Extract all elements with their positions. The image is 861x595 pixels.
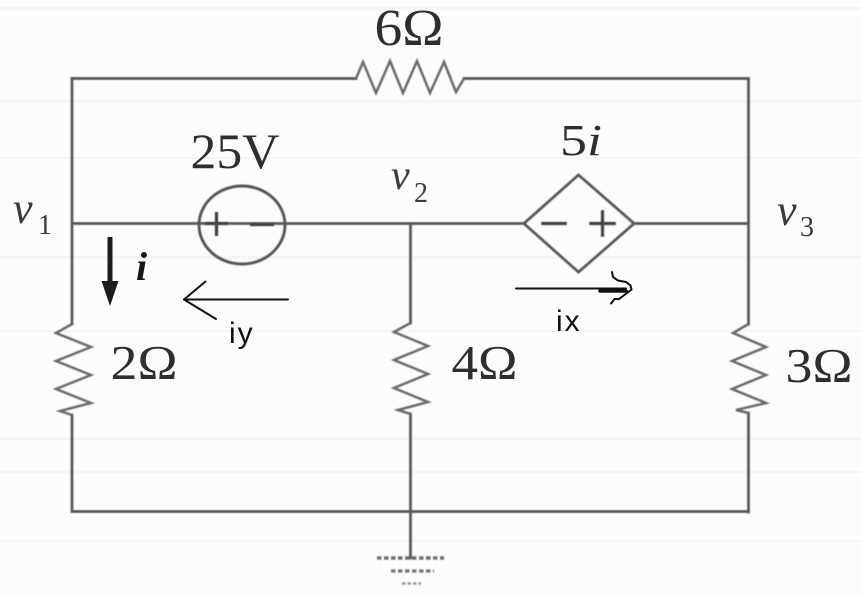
svg-text:v: v — [391, 153, 410, 199]
svg-text:3: 3 — [800, 212, 814, 243]
svg-text:ix: ix — [556, 305, 582, 338]
svg-text:v: v — [777, 186, 797, 235]
svg-text:v: v — [13, 184, 33, 233]
svg-text:1: 1 — [38, 210, 52, 241]
svg-text:25V: 25V — [191, 123, 280, 179]
svg-text:4Ω: 4Ω — [452, 335, 518, 390]
svg-text:2Ω: 2Ω — [111, 335, 178, 390]
svg-text:2: 2 — [414, 178, 428, 209]
svg-text:5i: 5i — [560, 116, 602, 165]
svg-text:i: i — [136, 244, 147, 289]
svg-text:3Ω: 3Ω — [786, 338, 853, 393]
svg-text:6Ω: 6Ω — [375, 0, 444, 57]
svg-text:iy: iy — [229, 317, 255, 350]
